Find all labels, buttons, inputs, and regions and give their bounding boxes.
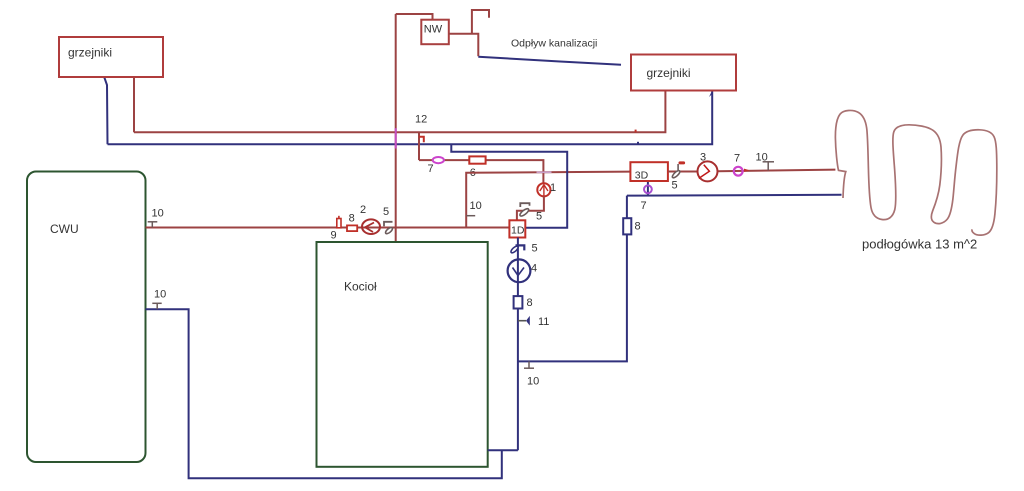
svg-text:2: 2 xyxy=(360,204,366,216)
wire: blue column below 4-way valve down to boiler xyxy=(517,238,519,451)
wire: blue CWU return line to bottom xyxy=(146,309,502,478)
svg-text:4: 4 xyxy=(531,263,537,275)
pump 4 (circle with down arrow) xyxy=(508,259,531,282)
svg-text:5: 5 xyxy=(383,206,389,218)
svg-text:grzejniki: grzejniki xyxy=(647,66,691,80)
radiator box left (grzejniki) xyxy=(59,37,163,77)
4-way mixing valve box 1D xyxy=(509,220,525,237)
NW box xyxy=(421,20,449,45)
junction tick on red supply line xyxy=(635,130,637,133)
svg-text:10: 10 xyxy=(470,200,482,212)
boiler box (Kociol) xyxy=(317,242,488,467)
svg-text:10: 10 xyxy=(756,152,768,164)
svg-text:8: 8 xyxy=(349,212,355,224)
svg-text:1: 1 xyxy=(550,182,556,194)
svg-text:5: 5 xyxy=(532,243,538,255)
wire: blue sloping sewage line xyxy=(478,57,621,65)
svg-text:7: 7 xyxy=(641,200,647,212)
wire: red CWU supply line xyxy=(146,227,510,229)
magenta sensor ellipse 7 xyxy=(433,157,444,163)
svg-text:3: 3 xyxy=(700,152,706,164)
wire: top horizontal to NW box xyxy=(396,14,433,20)
svg-text:CWU: CWU xyxy=(50,222,79,236)
svg-text:8: 8 xyxy=(635,221,641,233)
component 8 on CWU line xyxy=(347,225,357,231)
sensor dash 10 on inner loop xyxy=(466,215,475,217)
svg-text:3D: 3D xyxy=(635,170,649,182)
junction tick on blue return line xyxy=(637,142,639,145)
svg-text:8: 8 xyxy=(527,297,533,309)
wire: from NW box right edge to vent and drop xyxy=(449,34,479,57)
valve 5 right of 3D xyxy=(679,161,686,164)
svg-text:Kocioł: Kocioł xyxy=(344,280,377,294)
sensor 10 on CWU red line xyxy=(151,222,153,228)
wire: drop from 3D valve to return xyxy=(647,181,649,196)
wire: second blue line from return to right of 4-way valve xyxy=(451,144,567,227)
pump 3 (circle with right arrow) xyxy=(698,161,718,181)
svg-text:Odpływ kanalizacji: Odpływ kanalizacji xyxy=(511,38,597,50)
svg-text:10: 10 xyxy=(154,289,166,301)
sensor 10 on supply near floor loop xyxy=(767,162,769,171)
arrowhead into right radiator box xyxy=(709,91,712,98)
valve 5 below 4-way valve xyxy=(516,245,525,250)
svg-text:10: 10 xyxy=(527,376,539,388)
svg-text:podłogówka 13 m^2: podłogówka 13 m^2 xyxy=(862,237,977,252)
wire: blue drop from left radiator box to main blue return line xyxy=(104,75,108,144)
wire: red drop from left radiator box xyxy=(133,76,135,132)
pump 2 (circle with left arrow) xyxy=(362,219,380,234)
3-way valve box 3D xyxy=(630,162,668,181)
wire: main blue return line (horizontal) xyxy=(108,91,713,145)
valve 5 above 4-way valve xyxy=(520,203,529,207)
violet sensor circle 7 below 3D xyxy=(644,185,652,193)
label 12 and branch tee component on red supply xyxy=(418,132,420,160)
svg-text:grzejniki: grzejniki xyxy=(68,46,112,60)
svg-text:7: 7 xyxy=(734,153,740,165)
svg-text:12: 12 xyxy=(415,114,427,126)
valve 5 right of pump 2 xyxy=(384,222,393,227)
wire: mixing loop upper red line xyxy=(419,160,543,183)
CWU tank box xyxy=(27,172,146,463)
radiator box right (grzejniki) xyxy=(631,55,736,91)
component 8 on right riser xyxy=(623,218,631,234)
wire: inner loop left vertical with red top line to 3D xyxy=(466,172,630,228)
safety valve 9 on CWU line xyxy=(338,216,340,219)
pump 1 (circle with up arrow) xyxy=(537,183,550,196)
component 6 rectangle xyxy=(469,156,485,163)
wire: red riser from NW down to boiler top xyxy=(395,14,397,242)
floor heating coil (podlogowka) xyxy=(835,110,996,235)
svg-text:9: 9 xyxy=(331,230,337,242)
wire: red floor-heating supply line right of 3D xyxy=(668,171,697,173)
wire: blue floor-heating return line xyxy=(627,194,842,197)
svg-text:11: 11 xyxy=(538,316,549,328)
svg-text:5: 5 xyxy=(672,180,678,192)
sensor 10 on CWU blue line xyxy=(156,303,158,309)
wire: main red supply line (horizontal) to right radiator xyxy=(134,90,665,132)
light overlay where lines cross xyxy=(537,171,552,173)
magenta overlay segment on riser at main-line crossing xyxy=(395,128,397,148)
svg-text:NW: NW xyxy=(424,24,443,36)
svg-text:5: 5 xyxy=(536,211,542,223)
wire: branch from blue column to right riser xyxy=(518,196,627,362)
svg-text:10: 10 xyxy=(152,208,164,220)
vent hook above xyxy=(472,10,489,34)
component 8 on blue column xyxy=(514,296,523,308)
svg-text:1D: 1D xyxy=(511,225,525,237)
small arrow on supply line xyxy=(744,169,750,172)
sensor 10 below branch xyxy=(528,361,530,368)
magenta sensor circle 7 on supply xyxy=(734,167,743,176)
drain valve 11 xyxy=(518,320,526,322)
wire: boiler connection horizontal xyxy=(488,449,518,451)
svg-text:7: 7 xyxy=(428,163,434,175)
wire: from pump 1 down-left into 4-way valve top xyxy=(517,196,544,220)
